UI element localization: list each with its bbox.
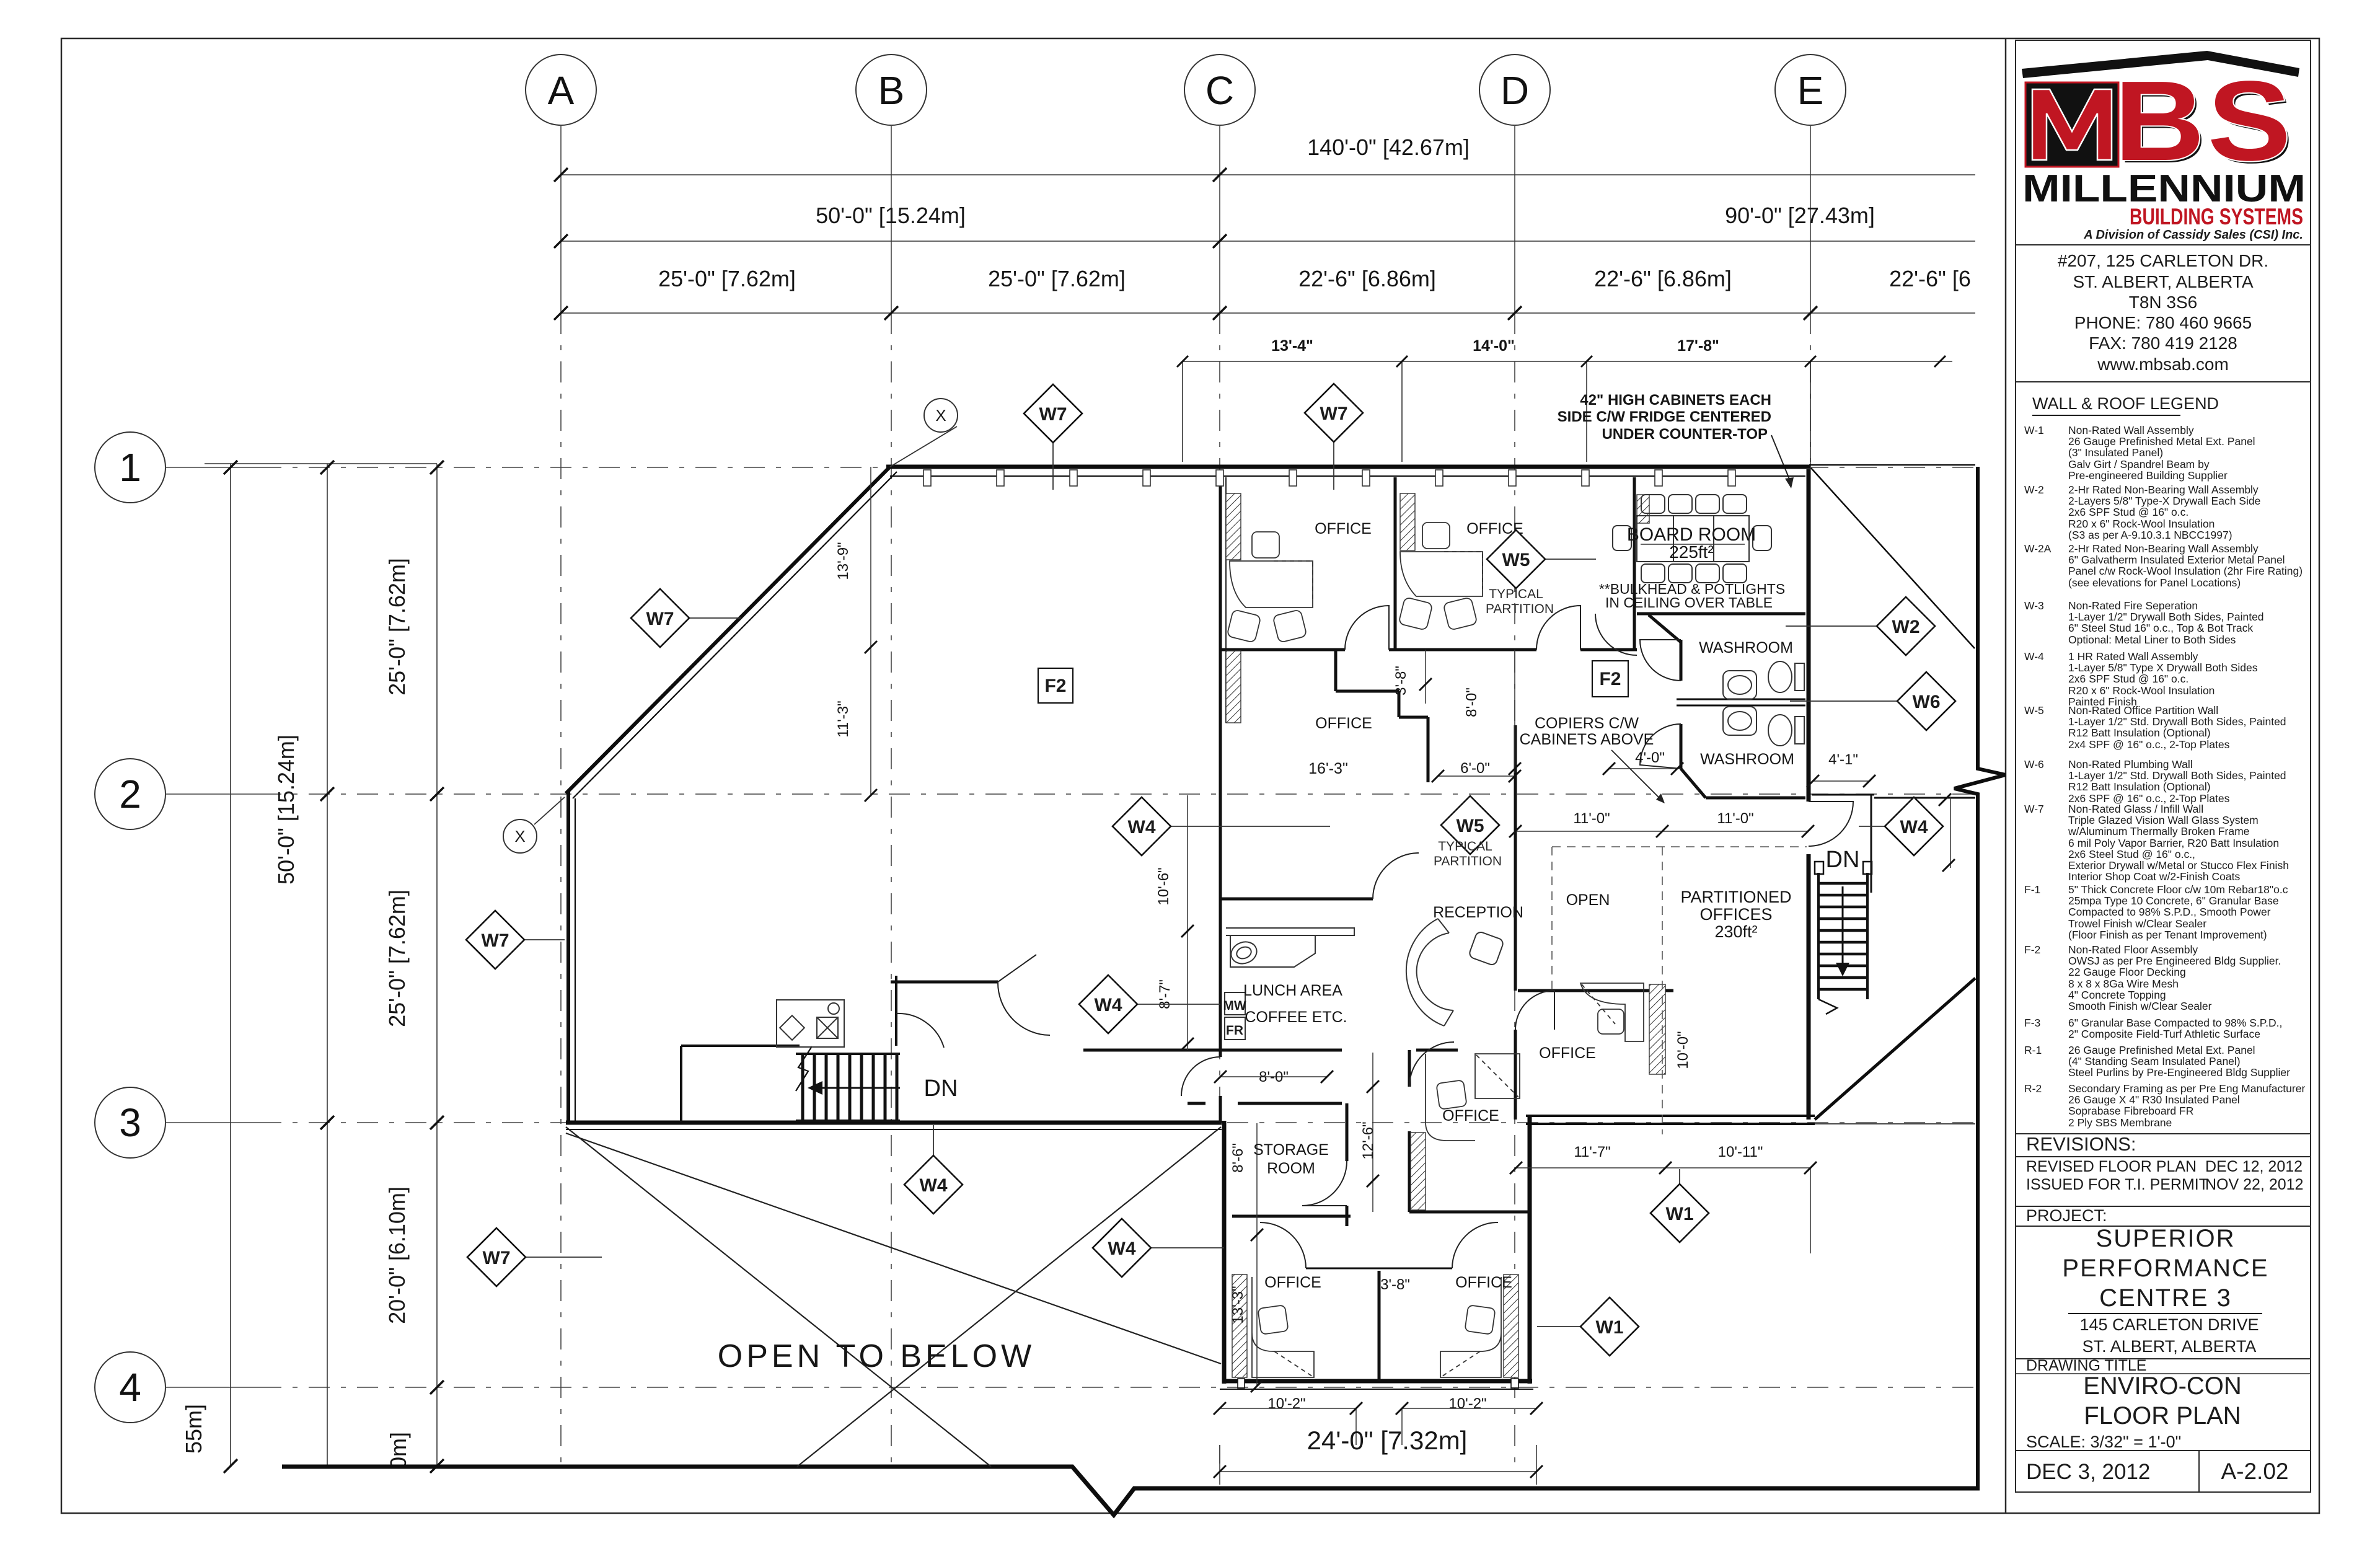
svg-text:CENTRE 3: CENTRE 3 bbox=[2099, 1284, 2232, 1312]
svg-text:26 Gauge X 4" R30 Insulated P: 26 Gauge X 4" R30 Insulated Panel bbox=[2068, 1093, 2240, 1106]
wall & roof legend entries bbox=[2024, 424, 2305, 1129]
svg-text:10'-11": 10'-11" bbox=[1718, 1144, 1763, 1160]
svg-text:55m]: 55m] bbox=[181, 1404, 206, 1454]
svg-text:22 Gauge Floor Decking: 22 Gauge Floor Decking bbox=[2068, 966, 2186, 978]
svg-text:ST. ALBERT, ALBERTA: ST. ALBERT, ALBERTA bbox=[2073, 272, 2253, 291]
svg-text:DN: DN bbox=[924, 1076, 958, 1102]
boardroom table and chairs bbox=[1613, 495, 1771, 583]
svg-text:(3" Insulated Panel): (3" Insulated Panel) bbox=[2068, 446, 2163, 459]
interior walls bbox=[681, 477, 1805, 1381]
svg-text:25'-0" [7.62m]: 25'-0" [7.62m] bbox=[988, 266, 1126, 291]
svg-text:PROJECT:: PROJECT: bbox=[2026, 1206, 2107, 1225]
svg-text:DRAWING TITLE: DRAWING TITLE bbox=[2026, 1357, 2146, 1374]
svg-text:www.mbsab.com: www.mbsab.com bbox=[2097, 355, 2229, 374]
svg-text:w/Aluminum Thermally Broken Fr: w/Aluminum Thermally Broken Frame bbox=[2068, 825, 2249, 837]
svg-text:CABINETS ABOVE: CABINETS ABOVE bbox=[1520, 731, 1654, 748]
svg-text:RECEPTION: RECEPTION bbox=[1433, 904, 1523, 921]
svg-text:Galv Girt / Spandrel Beam by: Galv Girt / Spandrel Beam by bbox=[2068, 458, 2210, 470]
svg-text:F2: F2 bbox=[1599, 669, 1621, 689]
svg-text:BS: BS bbox=[2114, 57, 2294, 184]
washroom fixtures: sinks and toilets bbox=[1723, 661, 1804, 746]
svg-text:90'-0" [27.43m]: 90'-0" [27.43m] bbox=[1725, 203, 1875, 228]
svg-text:Smooth Finish w/Clear Sealer: Smooth Finish w/Clear Sealer bbox=[2068, 1000, 2212, 1012]
svg-text:4'-1": 4'-1" bbox=[1828, 751, 1858, 768]
svg-text:13'-3": 13'-3" bbox=[1230, 1286, 1246, 1323]
svg-text:2-Layers 5/8" Type-X Drywall E: 2-Layers 5/8" Type-X Drywall Each Side bbox=[2068, 495, 2260, 507]
svg-text:225ft²: 225ft² bbox=[1669, 542, 1714, 562]
svg-text:145 CARLETON DRIVE: 145 CARLETON DRIVE bbox=[2079, 1315, 2259, 1334]
svg-text:Non-Rated Wall Assembly: Non-Rated Wall Assembly bbox=[2068, 424, 2194, 436]
svg-text:Optional: Metal Liner to Both: Optional: Metal Liner to Both Sides bbox=[2068, 634, 2236, 646]
svg-text:26 Gauge Prefinished Metal Ext: 26 Gauge Prefinished Metal Ext. Panel bbox=[2068, 435, 2255, 448]
svg-text:W7: W7 bbox=[482, 930, 509, 951]
svg-text:WASHROOM: WASHROOM bbox=[1700, 751, 1794, 768]
svg-text:OFFICES: OFFICES bbox=[1699, 905, 1772, 924]
svg-text:Interior Shop Coat w/2-Finish: Interior Shop Coat w/2-Finish Coats bbox=[2068, 870, 2240, 883]
svg-text:W-7: W-7 bbox=[2024, 803, 2044, 815]
svg-text:8'-0": 8'-0" bbox=[1259, 1069, 1289, 1085]
F2 floor type boxes bbox=[1038, 668, 1073, 703]
left vertical dimension lines bbox=[205, 464, 437, 1466]
top-right protrusion office desk bbox=[1426, 1054, 1475, 1141]
interior dimension lines and ticks bbox=[871, 467, 1950, 1485]
leader lines for wall tags bbox=[524, 426, 1897, 1327]
svg-text:R20 x 6" Rock-Wool Insulation: R20 x 6" Rock-Wool Insulation bbox=[2068, 518, 2215, 530]
svg-text:T8N 3S6: T8N 3S6 bbox=[2129, 293, 2198, 312]
dashed partitioned offices outline bbox=[1552, 847, 1807, 1134]
svg-text:REVISED FLOOR PLAN: REVISED FLOOR PLAN bbox=[2026, 1158, 2197, 1175]
svg-text:COPIERS C/W: COPIERS C/W bbox=[1535, 715, 1639, 732]
east break line with zigzag bbox=[1954, 467, 2006, 1489]
svg-text:R20 x 6" Rock-Wool Insulation: R20 x 6" Rock-Wool Insulation bbox=[2068, 684, 2215, 697]
svg-text:NOV 22, 2012: NOV 22, 2012 bbox=[2205, 1176, 2303, 1193]
furniture: top office 1 desk/chairs bbox=[1227, 523, 1483, 643]
svg-text:W1: W1 bbox=[1666, 1204, 1694, 1224]
svg-text:F-1: F-1 bbox=[2024, 883, 2040, 896]
top dimension texts bbox=[658, 135, 1971, 291]
svg-text:Exterior Drywall w/Metal or St: Exterior Drywall w/Metal or Stucco Flex … bbox=[2068, 859, 2289, 872]
svg-text:6'-0": 6'-0" bbox=[1460, 760, 1490, 777]
date / sheet number row bbox=[2016, 1450, 2311, 1451]
svg-text:SCALE: 3/32" = 1'-0": SCALE: 3/32" = 1'-0" bbox=[2026, 1433, 2181, 1451]
svg-text:Steel Purlins by Pre-Engineere: Steel Purlins by Pre-Engineered Bldg Sup… bbox=[2068, 1066, 2290, 1079]
svg-text:25'-0" [7.62m]: 25'-0" [7.62m] bbox=[384, 558, 410, 696]
svg-text:Non-Rated Glass / Infill Wall: Non-Rated Glass / Infill Wall bbox=[2068, 803, 2203, 815]
svg-text:D: D bbox=[1501, 68, 1529, 113]
svg-text:R12 Batt Insulation (Optional): R12 Batt Insulation (Optional) bbox=[2068, 727, 2211, 739]
svg-text:11'-7": 11'-7" bbox=[1574, 1144, 1610, 1160]
svg-text:16'-3": 16'-3" bbox=[1308, 760, 1348, 777]
svg-text:COFFEE ETC.: COFFEE ETC. bbox=[1245, 1009, 1347, 1026]
X reference circles bbox=[924, 399, 958, 432]
svg-text:OFFICE: OFFICE bbox=[1264, 1274, 1321, 1291]
dimension tick marks top rows bbox=[554, 168, 568, 182]
svg-text:W-3: W-3 bbox=[2024, 599, 2044, 612]
column grid dashed lines bbox=[165, 125, 1975, 1466]
reception curved desk and chair bbox=[1406, 919, 1504, 1026]
svg-text:22'-6" [6.86m]: 22'-6" [6.86m] bbox=[1594, 266, 1732, 291]
left stairs DN bbox=[796, 1046, 900, 1121]
svg-text:8'-0": 8'-0" bbox=[1463, 687, 1480, 717]
svg-text:W6: W6 bbox=[1913, 692, 1941, 712]
bottom offices desks bbox=[1252, 1054, 1520, 1377]
svg-text:(S3 as per A-9.10.3.1 NBCC1997: (S3 as per A-9.10.3.1 NBCC1997) bbox=[2068, 529, 2232, 541]
leader from copiers note bbox=[1611, 750, 1661, 800]
svg-text:10'-2": 10'-2" bbox=[1267, 1395, 1305, 1412]
svg-text:ISSUED FOR T.I. PERMIT: ISSUED FOR T.I. PERMIT bbox=[2026, 1176, 2208, 1193]
svg-text:SIDE C/W FRIDGE CENTERED: SIDE C/W FRIDGE CENTERED bbox=[1558, 409, 1771, 425]
svg-text:140'-0" [42.67m]: 140'-0" [42.67m] bbox=[1307, 135, 1470, 160]
svg-text:W4: W4 bbox=[1900, 817, 1928, 837]
svg-text:10'-0": 10'-0" bbox=[1675, 1031, 1691, 1069]
svg-text:50'-0" [15.24m]: 50'-0" [15.24m] bbox=[273, 735, 299, 885]
stair room fixtures bbox=[777, 1000, 844, 1047]
svg-text:13'-4": 13'-4" bbox=[1271, 337, 1313, 355]
svg-text:2 Ply SBS Membrane: 2 Ply SBS Membrane bbox=[2068, 1116, 2172, 1129]
svg-text:(4" Standing Seam Insulated Pa: (4" Standing Seam Insulated Panel) bbox=[2068, 1055, 2241, 1067]
svg-text:OPEN TO BELOW: OPEN TO BELOW bbox=[718, 1338, 1035, 1374]
svg-text:ENVIRO-CON: ENVIRO-CON bbox=[2083, 1372, 2242, 1400]
svg-text:PARTITION: PARTITION bbox=[1486, 602, 1554, 616]
svg-text:W-4: W-4 bbox=[2024, 650, 2044, 663]
svg-text:X: X bbox=[514, 827, 525, 846]
lunch counter, sink, MW FR bbox=[1225, 928, 1354, 1040]
svg-text:5" Thick Concrete Floor c/w 10: 5" Thick Concrete Floor c/w 10m Rebar18"… bbox=[2068, 883, 2288, 896]
east vestibule walls bbox=[1812, 795, 1975, 893]
svg-text:PERFORMANCE: PERFORMANCE bbox=[2062, 1255, 2268, 1282]
drawing title section bbox=[2016, 1358, 2311, 1359]
svg-text:50'-0" [15.24m]: 50'-0" [15.24m] bbox=[816, 203, 966, 228]
svg-text:ST. ALBERT, ALBERTA: ST. ALBERT, ALBERTA bbox=[2082, 1337, 2257, 1356]
svg-text:6 mil Poly Vapor Barrier, R20: 6 mil Poly Vapor Barrier, R20 Batt Insul… bbox=[2068, 837, 2279, 849]
wall tag diamonds bbox=[1024, 384, 1082, 443]
svg-text:3: 3 bbox=[119, 1100, 141, 1145]
svg-text:2x6 SPF Stud @ 16" o.c.: 2x6 SPF Stud @ 16" o.c. bbox=[2068, 506, 2188, 518]
svg-text:12'-6": 12'-6" bbox=[1360, 1121, 1377, 1159]
svg-text:0m]: 0m] bbox=[386, 1432, 411, 1469]
svg-text:25mpa Type 10 Concrete, 6" Gra: 25mpa Type 10 Concrete, 6" Granular Base bbox=[2068, 894, 2279, 907]
svg-text:2x4 SPF @ 16" o.c., 2-Top Plat: 2x4 SPF @ 16" o.c., 2-Top Plates bbox=[2068, 738, 2230, 751]
svg-text:25'-0" [7.62m]: 25'-0" [7.62m] bbox=[384, 890, 410, 1027]
svg-text:R-2: R-2 bbox=[2024, 1082, 2042, 1095]
svg-text:4" Concrete Topping: 4" Concrete Topping bbox=[2068, 989, 2166, 1001]
svg-text:W4: W4 bbox=[1128, 817, 1156, 837]
svg-text:1-Layer 1/2" Drywall Both Side: 1-Layer 1/2" Drywall Both Sides, Painted bbox=[2068, 611, 2264, 623]
svg-text:11'-0": 11'-0" bbox=[1717, 810, 1753, 827]
svg-text:Pre-engineered Building Suppli: Pre-engineered Building Supplier bbox=[2068, 469, 2228, 482]
svg-text:W-2A: W-2A bbox=[2024, 542, 2052, 555]
svg-text:W7: W7 bbox=[1039, 404, 1067, 425]
open-to-below X brace diagonals bbox=[566, 1127, 1221, 1467]
svg-text:8'-6": 8'-6" bbox=[1230, 1143, 1246, 1173]
middle office desk bbox=[1580, 983, 1644, 1041]
svg-text:W5: W5 bbox=[1502, 550, 1530, 570]
svg-text:PHONE: 780 460 9665: PHONE: 780 460 9665 bbox=[2074, 313, 2252, 332]
svg-text:Non-Rated Fire Seperation: Non-Rated Fire Seperation bbox=[2068, 599, 2198, 612]
furniture: top office 2 desk/chairs bbox=[1400, 552, 1483, 596]
svg-text:(Floor Finish as per Tenant Im: (Floor Finish as per Tenant Improvement) bbox=[2068, 929, 2267, 941]
svg-text:W4: W4 bbox=[1095, 995, 1122, 1015]
svg-text:TYPICAL: TYPICAL bbox=[1438, 839, 1492, 854]
svg-text:2-Hr Rated Non-Bearing Wall As: 2-Hr Rated Non-Bearing Wall Assembly bbox=[2068, 484, 2259, 496]
door arcs bbox=[896, 606, 1853, 1268]
svg-text:25'-0" [7.62m]: 25'-0" [7.62m] bbox=[658, 266, 796, 291]
svg-text:REVISIONS:: REVISIONS: bbox=[2026, 1133, 2136, 1155]
svg-text:1-Layer 5/8" Type X Drywall Bo: 1-Layer 5/8" Type X Drywall Both Sides bbox=[2068, 661, 2258, 674]
svg-text:W5: W5 bbox=[1457, 816, 1484, 836]
svg-text:F-2: F-2 bbox=[2024, 943, 2040, 956]
svg-text:4'-0": 4'-0" bbox=[1635, 749, 1665, 766]
svg-text:24'-0" [7.32m]: 24'-0" [7.32m] bbox=[1307, 1426, 1468, 1455]
svg-text:Non-Rated Office Partition Wa: Non-Rated Office Partition Wall bbox=[2068, 704, 2218, 717]
svg-text:MW: MW bbox=[1223, 999, 1246, 1013]
svg-text:22'-6" [6: 22'-6" [6 bbox=[1889, 266, 1971, 291]
svg-text:C: C bbox=[1205, 68, 1234, 113]
svg-text:6" Granular Base Compacted to: 6" Granular Base Compacted to 98% S.P.D.… bbox=[2068, 1017, 2282, 1029]
svg-text:A Division of Cassidy Sales (C: A Division of Cassidy Sales (CSI) Inc. bbox=[2083, 228, 2303, 242]
exterior walls bbox=[566, 465, 1975, 1389]
room labels bbox=[1243, 520, 1794, 1291]
svg-text:W-6: W-6 bbox=[2024, 758, 2044, 771]
MBS logo M block bbox=[2025, 82, 2118, 167]
svg-text:1 HR Rated Wall Assembly: 1 HR Rated Wall Assembly bbox=[2068, 650, 2198, 663]
svg-text:Non-Rated Plumbing Wall: Non-Rated Plumbing Wall bbox=[2068, 758, 2193, 771]
svg-text:F2: F2 bbox=[1044, 676, 1066, 696]
svg-text:ROOM: ROOM bbox=[1267, 1160, 1315, 1177]
svg-text:Soprabase Fibreboard FR: Soprabase Fibreboard FR bbox=[2068, 1105, 2193, 1117]
left rotated dimension texts bbox=[181, 558, 411, 1469]
svg-text:OFFICE: OFFICE bbox=[1455, 1274, 1512, 1291]
svg-text:PARTITIONED: PARTITIONED bbox=[1680, 888, 1791, 906]
row grid circles 1-4 bbox=[95, 432, 165, 1423]
svg-text:4: 4 bbox=[119, 1365, 141, 1410]
svg-text:E: E bbox=[1797, 68, 1824, 113]
svg-text:Trowel Finish w/Clear Sealer: Trowel Finish w/Clear Sealer bbox=[2068, 917, 2206, 930]
svg-text:DN: DN bbox=[1826, 847, 1860, 873]
svg-text:R12 Batt Insulation (Optional): R12 Batt Insulation (Optional) bbox=[2068, 780, 2211, 793]
svg-text:Compacted to 98% S.P.D., Smoot: Compacted to 98% S.P.D., Smooth Power bbox=[2068, 906, 2271, 918]
typical partition notes bbox=[1434, 587, 1554, 868]
svg-text:X: X bbox=[935, 406, 946, 425]
svg-text:6" Galvatherm Insulated Exteri: 6" Galvatherm Insulated Exterior Metal P… bbox=[2068, 554, 2285, 566]
svg-text:WASHROOM: WASHROOM bbox=[1699, 639, 1793, 656]
title block inner box bbox=[2016, 40, 2311, 1492]
svg-text:W7: W7 bbox=[1320, 404, 1348, 424]
svg-text:W-1: W-1 bbox=[2024, 424, 2044, 436]
svg-text:W4: W4 bbox=[1108, 1239, 1136, 1259]
svg-text:W2: W2 bbox=[1892, 617, 1920, 637]
svg-text:STORAGE: STORAGE bbox=[1253, 1141, 1329, 1159]
svg-text:WALL & ROOF LEGEND: WALL & ROOF LEGEND bbox=[2032, 394, 2219, 413]
revisions section bbox=[2016, 1133, 2311, 1134]
svg-text:FLOOR PLAN: FLOOR PLAN bbox=[2084, 1402, 2241, 1429]
svg-text:6" Steel Stud 16" o.c., Top &: 6" Steel Stud 16" o.c., Top & Bot Track bbox=[2068, 622, 2253, 634]
svg-text:PARTITION: PARTITION bbox=[1434, 854, 1502, 868]
interior dimension texts bbox=[835, 542, 1858, 1412]
bottom boundary break line bbox=[282, 1467, 1980, 1515]
row grid dashed lines bbox=[165, 467, 260, 468]
svg-text:A-2.02: A-2.02 bbox=[2221, 1459, 2288, 1484]
svg-text:3'-8": 3'-8" bbox=[1393, 666, 1409, 696]
column grid circles A-E bbox=[526, 55, 1846, 125]
svg-text:OFFICE: OFFICE bbox=[1442, 1107, 1499, 1124]
svg-text:OWSJ as per Pre Engineered Bld: OWSJ as per Pre Engineered Bldg Supplier… bbox=[2068, 955, 2281, 967]
svg-text:R-1: R-1 bbox=[2024, 1044, 2042, 1056]
svg-text:10'-2": 10'-2" bbox=[1448, 1395, 1486, 1412]
svg-text:W1: W1 bbox=[1596, 1317, 1624, 1338]
svg-text:DEC 3, 2012: DEC 3, 2012 bbox=[2026, 1460, 2150, 1484]
svg-text:(see elevations for Panel Loca: (see elevations for Panel Locations) bbox=[2068, 576, 2241, 589]
north wall window mullions bbox=[923, 470, 1735, 486]
svg-text:11'-3": 11'-3" bbox=[835, 700, 852, 737]
svg-text:Secondary Framing as per Pre E: Secondary Framing as per Pre Eng Manufac… bbox=[2068, 1082, 2305, 1095]
svg-text:IN CEILING OVER TABLE: IN CEILING OVER TABLE bbox=[1605, 594, 1773, 611]
svg-text:OPEN: OPEN bbox=[1566, 891, 1610, 909]
svg-text:22'-6" [6.86m]: 22'-6" [6.86m] bbox=[1298, 266, 1436, 291]
svg-text:OFFICE: OFFICE bbox=[1315, 715, 1372, 732]
svg-text:2" Composite Field-Turf Athlet: 2" Composite Field-Turf Athletic Surface bbox=[2068, 1028, 2260, 1040]
svg-text:A: A bbox=[548, 68, 575, 113]
east stairs DN bbox=[1815, 862, 1872, 1014]
svg-text:B: B bbox=[878, 68, 905, 113]
svg-text:2: 2 bbox=[119, 772, 141, 816]
svg-text:BUILDING SYSTEMS: BUILDING SYSTEMS bbox=[2130, 204, 2303, 229]
cabinet note top right bbox=[1558, 392, 1771, 443]
svg-text:10'-6": 10'-6" bbox=[1155, 867, 1172, 905]
svg-text:11'-0": 11'-0" bbox=[1573, 810, 1610, 827]
svg-text:W7: W7 bbox=[483, 1248, 511, 1268]
svg-text:1-Layer 1/2" Std. Drywall Both: 1-Layer 1/2" Std. Drywall Both Sides, Pa… bbox=[2068, 715, 2286, 728]
svg-text:W-2: W-2 bbox=[2024, 484, 2044, 496]
svg-text:W7: W7 bbox=[646, 609, 674, 629]
svg-text:FAX: 780 419 2128: FAX: 780 419 2128 bbox=[2089, 333, 2237, 353]
project section bbox=[2016, 1206, 2311, 1207]
svg-text:42" HIGH CABINETS EACH: 42" HIGH CABINETS EACH bbox=[1580, 392, 1771, 409]
svg-text:SUPERIOR: SUPERIOR bbox=[2096, 1225, 2236, 1252]
svg-text:LUNCH AREA: LUNCH AREA bbox=[1243, 982, 1342, 999]
svg-text:13'-9": 13'-9" bbox=[835, 542, 852, 580]
svg-text:26 Gauge Prefinished Metal Ext: 26 Gauge Prefinished Metal Ext. Panel bbox=[2068, 1044, 2255, 1056]
svg-text:14'-0": 14'-0" bbox=[1473, 337, 1515, 355]
svg-text:2x6 Steel Stud @ 16" o.c.,: 2x6 Steel Stud @ 16" o.c., bbox=[2068, 848, 2195, 860]
svg-text:FR: FR bbox=[1226, 1023, 1243, 1038]
svg-text:#207, 125 CARLETON DR.: #207, 125 CARLETON DR. bbox=[2058, 251, 2268, 270]
svg-text:20'-0" [6.10m]: 20'-0" [6.10m] bbox=[384, 1186, 410, 1324]
svg-text:1-Layer 1/2" Std. Drywall Both: 1-Layer 1/2" Std. Drywall Both Sides, Pa… bbox=[2068, 769, 2286, 782]
svg-text:DEC 12, 2012: DEC 12, 2012 bbox=[2205, 1158, 2303, 1175]
svg-text:230ft²: 230ft² bbox=[1714, 922, 1757, 941]
svg-text:Triple Glazed Vision Wall Glas: Triple Glazed Vision Wall Glass System bbox=[2068, 814, 2259, 826]
svg-text:2-Hr Rated Non-Bearing Wall As: 2-Hr Rated Non-Bearing Wall Assembly bbox=[2068, 542, 2259, 555]
svg-text:TYPICAL: TYPICAL bbox=[1489, 587, 1543, 601]
svg-text:3'-8": 3'-8" bbox=[1380, 1276, 1410, 1293]
svg-text:2x6 SPF Stud @ 16" o.c.: 2x6 SPF Stud @ 16" o.c. bbox=[2068, 673, 2188, 685]
svg-text:1: 1 bbox=[119, 445, 141, 490]
svg-text:Panel c/w Rock-Wool Insulatio: Panel c/w Rock-Wool Insulation (2hr Fire… bbox=[2068, 565, 2303, 577]
svg-text:8 x 8 x 8Ga Wire Mesh: 8 x 8 x 8Ga Wire Mesh bbox=[2068, 978, 2179, 990]
svg-text:F-3: F-3 bbox=[2024, 1017, 2040, 1029]
MBS logo roof bbox=[2022, 51, 2299, 78]
top dimension line 140ft bbox=[561, 175, 1975, 462]
hatched wall strips bbox=[1226, 493, 1665, 1377]
svg-text:UNDER COUNTER-TOP: UNDER COUNTER-TOP bbox=[1602, 426, 1768, 443]
svg-text:OFFICE: OFFICE bbox=[1539, 1045, 1596, 1062]
title block divider bbox=[2005, 38, 2007, 1513]
svg-text:OFFICE: OFFICE bbox=[1315, 520, 1372, 537]
svg-text:W-5: W-5 bbox=[2024, 704, 2044, 717]
address box bbox=[2016, 245, 2311, 382]
svg-text:17'-8": 17'-8" bbox=[1677, 337, 1719, 355]
svg-text:Non-Rated Floor Assembly: Non-Rated Floor Assembly bbox=[2068, 943, 2198, 956]
svg-text:W4: W4 bbox=[920, 1175, 948, 1196]
